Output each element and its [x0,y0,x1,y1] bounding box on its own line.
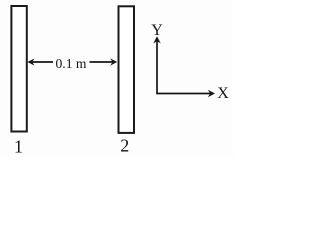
plate 1 [11,6,26,132]
X axis [156,90,215,98]
svg-text:X: X [217,85,229,102]
svg-text:1: 1 [14,137,23,156]
plate 2 [119,6,135,133]
Y axis [153,36,161,94]
svg-text:2: 2 [120,136,129,156]
dimension arrow (double-headed between plates) [28,58,118,65]
svg-text:0.1 m: 0.1 m [56,57,87,72]
svg-text:Y: Y [151,22,163,39]
